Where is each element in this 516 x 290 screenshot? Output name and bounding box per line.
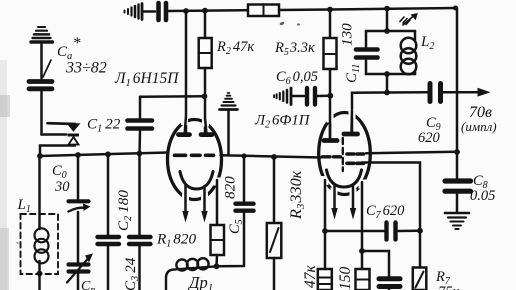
ground (C8): [445, 213, 469, 229]
tube U1 anode pins: [179, 116, 213, 135]
node R3/grid junction: [271, 154, 277, 160]
resistor R4 (series in bus): [248, 5, 279, 17]
wire input to L1: [38, 156, 41, 229]
wire grid bus (left): [40, 153, 168, 157]
wire cathode node to C5: [217, 214, 245, 267]
tube U2 cathode: [327, 170, 362, 187]
wire C1 bottom lead: [138, 131, 141, 155]
wire C2 bottom lead: [107, 247, 110, 290]
wire to bypass cap: [362, 251, 389, 276]
wire pentode anode riser: [352, 93, 387, 134]
svg-text:С324: С324: [122, 257, 141, 290]
scan shading left edge: [0, 60, 7, 290]
wire C3 bottom lead: [138, 247, 141, 290]
node tank bottom rail junction: [384, 71, 390, 77]
svg-text:Сп: Сп: [81, 279, 95, 290]
wire output line to C9: [387, 91, 428, 94]
svg-text:R247к: R247к: [216, 39, 254, 57]
wire C0 top lead: [77, 155, 80, 199]
wire tank bottom to output line: [386, 74, 389, 93]
node bypass cap junction: [359, 248, 365, 254]
svg-text:47к: 47к: [302, 265, 319, 289]
wire top supply bus: [168, 8, 457, 11]
wire L1 bottom lead: [38, 261, 41, 290]
node bus/R5 junction: [327, 7, 333, 13]
wire tube1 cathode to R1: [216, 180, 219, 225]
svg-text:С122: С122: [87, 116, 121, 135]
svg-text:С11: С11: [344, 64, 362, 83]
node bus/tank junction: [384, 6, 390, 12]
wire ground to blocking cap: [142, 10, 155, 13]
node bus/anode1 junction: [183, 8, 189, 14]
wire tube2 lower right pin to R7 column: [362, 163, 420, 268]
tube U1 cathode: [180, 172, 213, 190]
L1 shield box (dashed): [21, 214, 59, 274]
ground (top-left, sideways): [125, 4, 143, 20]
wire plug branch: [42, 133, 67, 136]
wire bus to R2: [204, 11, 207, 38]
wire Ca to plug: [40, 92, 43, 135]
inductor Dr1 (choke): [166, 258, 217, 290]
wire grid to R3: [273, 157, 276, 223]
tube U2 cathode arrows: [335, 184, 354, 210]
capacitor (top-left bypass): [159, 3, 167, 20]
wire tube2 cathode right lead: [361, 182, 364, 269]
svg-text:R1820: R1820: [156, 231, 196, 250]
node bus/R2 junction: [202, 8, 208, 14]
svg-text:(импл): (импл): [461, 119, 497, 134]
capacitor C7: [387, 223, 396, 240]
svg-text:30: 30: [54, 179, 70, 195]
wire grid line tube1 to tube2: [221, 155, 322, 157]
node R5-C6 junction: [327, 93, 333, 99]
antenna symbol: [31, 27, 53, 42]
inductor L1: [35, 228, 49, 263]
svg-text:0.05: 0.05: [470, 188, 495, 204]
svg-text:С60,05: С60,05: [276, 69, 318, 87]
resistor R1: [211, 225, 225, 255]
node C7/R7 junction: [417, 228, 423, 234]
capacitor C8: [445, 181, 471, 191]
L2 tuning arrow: [400, 16, 414, 26]
svg-text:33÷82: 33÷82: [65, 60, 107, 77]
tube U1 envelope (6N15P): [168, 120, 222, 200]
svg-text:R53.3к: R53.3к: [274, 40, 315, 58]
svg-text:Л16Н15П: Л16Н15П: [114, 70, 179, 89]
wire bus to R5: [329, 10, 332, 39]
svg-text:620: 620: [418, 130, 441, 146]
node R2-C1 junction: [202, 93, 208, 99]
output arrowhead 70v: [478, 88, 491, 97]
svg-text:Л26Ф1П: Л26Ф1П: [254, 113, 311, 131]
tube U2 envelope (6F1P): [319, 113, 371, 195]
resistor R7 (adjustable): [413, 268, 427, 290]
node bus corner: [453, 6, 458, 11]
scan speck marks: [16, 21, 300, 244]
wire C11 bottom lead: [365, 61, 368, 75]
capacitor C9: [430, 84, 441, 102]
node C5/grid junction: [241, 153, 246, 158]
resistor 47k (cathode): [318, 269, 332, 290]
connector X1 plug pin: [48, 123, 81, 136]
wire R5 to tube2 left pin: [329, 69, 332, 139]
svg-text:L1: L1: [17, 197, 31, 215]
Cp arrow: [67, 259, 88, 283]
wire bypass cap stub: [388, 288, 391, 290]
wire C2 top lead: [107, 154, 110, 234]
svg-text:С2180: С2180: [115, 190, 134, 231]
wire R1 to cathode node: [215, 255, 218, 266]
tube U2 pentode grids (dashed): [347, 154, 364, 163]
capacitor C6: [307, 88, 315, 105]
node output line junction: [384, 90, 390, 96]
node tank top rail junction: [384, 28, 390, 34]
capacitor Ca (antenna trimmer): [29, 82, 52, 89]
node input junction: [37, 153, 43, 159]
wire C1 top lead: [139, 97, 142, 118]
svg-text:75к: 75к: [438, 284, 460, 290]
wire C0 to Cp: [77, 212, 80, 262]
tube U2 triode grid (dashed): [323, 155, 341, 158]
svg-text:820: 820: [222, 176, 239, 199]
capacitor C11: [356, 50, 378, 58]
wire socket to input node: [40, 146, 75, 157]
svg-text:*: *: [73, 35, 81, 52]
wire antenna stem: [40, 45, 43, 79]
wire R3 bottom lead: [273, 258, 276, 290]
ground (C6, sideways): [274, 88, 291, 105]
tube U2 top pins: [324, 110, 358, 141]
wire C3 top lead: [138, 154, 141, 235]
capacitor Cp (tuning, variable): [69, 265, 89, 272]
node C3/C1 junction: [137, 151, 143, 157]
resistor R3 (adjustable): [267, 223, 282, 258]
node L1 bottom junction: [37, 271, 43, 277]
svg-text:L2: L2: [420, 34, 434, 52]
wire bus to tank top: [386, 9, 389, 31]
capacitor (cathode bypass): [379, 279, 400, 287]
wire C9 to output arrow: [443, 91, 480, 94]
svg-text:150: 150: [337, 267, 354, 290]
node C0 junction: [75, 152, 81, 158]
wire C6 to R5 junction: [317, 94, 330, 97]
inductor L2: [401, 31, 417, 74]
capacitor C1: [128, 121, 153, 129]
svg-text:С5: С5: [227, 219, 245, 234]
node screen/B+ junction: [454, 149, 460, 155]
tube U2 screen partition (dashed vertical): [342, 138, 344, 171]
svg-text:С7620: С7620: [366, 203, 405, 221]
svg-text:130: 130: [339, 23, 356, 46]
wire C7 right: [398, 229, 420, 232]
wire C8 to ground: [456, 194, 459, 213]
node C7 left junction: [322, 228, 328, 234]
connector X1 socket: [69, 137, 79, 145]
Ca pointer slash: [43, 60, 51, 77]
wire bus to tube1 left anode: [185, 11, 188, 132]
node C2 junction: [105, 151, 111, 157]
wire right B+ drop: [456, 8, 459, 152]
capacitor C0 (trimmer): [69, 201, 91, 211]
wire C11 top lead: [365, 31, 368, 47]
wire C5 top lead: [243, 156, 246, 201]
capacitor C3: [129, 237, 151, 244]
wire R2 to tube1 right anode: [204, 68, 207, 132]
resistor 150 (cathode): [356, 269, 370, 290]
svg-text:R3330к: R3330к: [287, 170, 307, 220]
resistor R5: [324, 38, 337, 69]
wire tank top rail: [366, 30, 415, 33]
wire C1 to R2 junction: [140, 95, 205, 98]
resistor R2: [199, 38, 212, 68]
tube U1 cathode arrows: [186, 185, 205, 213]
wire tube2 cathode left lead: [324, 180, 327, 269]
wire Cp bottom lead: [77, 274, 80, 290]
capacitor C2: [98, 237, 120, 244]
capacitor C5: [236, 204, 254, 211]
wire C7 left: [325, 230, 384, 233]
wire tube2 screen to B+ drop: [366, 152, 457, 153]
ground (tube1 grid): [220, 93, 238, 110]
wire tank bottom rail: [366, 73, 415, 76]
tube U1 grid (dashed): [175, 154, 214, 158]
wire grid ground stem: [227, 110, 230, 155]
wire C6 to ground: [292, 95, 304, 98]
wire B+ drop to C8: [456, 152, 459, 178]
svg-text:Др1: Др1: [187, 273, 213, 290]
node cathode network junction: [214, 263, 220, 269]
